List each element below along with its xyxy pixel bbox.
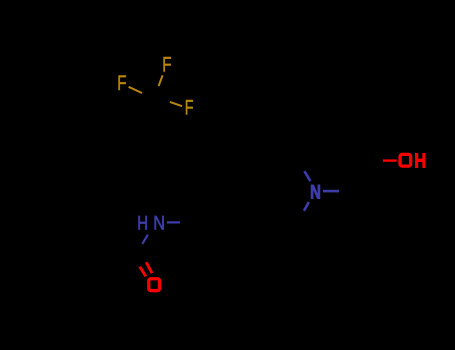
svg-text:N: N	[310, 181, 321, 204]
bond C10-F3 (gold half-bond)	[170, 102, 182, 106]
bond N1-C11 carbonyl (blue half-bond)	[142, 235, 148, 244]
svg-text:H: H	[414, 149, 426, 172]
atom O1 (carbonyl oxygen)	[149, 279, 160, 291]
bond C3-N2 lower-left (blue half-bond)	[304, 202, 309, 211]
svg-text:F: F	[162, 52, 171, 76]
bond C11=O1 double-bond line 1 (red half)	[146, 262, 152, 273]
svg-text:H: H	[137, 211, 148, 233]
svg-text:F: F	[117, 71, 126, 95]
bond C10-F2 (gold half-bond)	[129, 87, 142, 93]
bond C10-F1 (gold half-bond)	[159, 75, 163, 86]
bond C1-N2 upper-left (blue half-bond)	[304, 171, 310, 181]
svg-text:N: N	[153, 212, 165, 234]
bond C11=O1 double-bond line 2 (red half)	[140, 267, 146, 277]
atom O2 (hydroxyl oxygen)	[400, 154, 411, 166]
bond N2-C4 right (blue half-bond)	[323, 190, 339, 193]
svg-text:F: F	[185, 96, 194, 119]
bond C5-O2 (red half-bond)	[383, 159, 397, 161]
bond N1-C7 to ring (blue half-bond)	[167, 221, 180, 223]
